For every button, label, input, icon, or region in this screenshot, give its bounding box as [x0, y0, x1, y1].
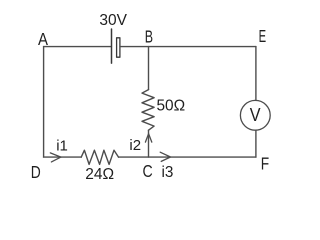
svg-text:24Ω: 24Ω — [85, 166, 114, 183]
svg-text:V: V — [250, 105, 261, 125]
svg-text:i3: i3 — [162, 164, 174, 181]
wire from node B junction down to 50 ohm resistor — [148, 47, 150, 90]
svg-text:E: E — [259, 26, 267, 46]
wire left side: A corner down to D corner — [43, 47, 45, 158]
wire 50 ohm resistor down to node C junction — [148, 130, 150, 157]
wire top-left: node A corner to battery left plate — [44, 46, 111, 48]
voltmeter U1 circle — [240, 100, 270, 130]
battery V1 30V: long plate (left) — [111, 29, 113, 63]
resistor 50 ohm (vertical zigzag) — [142, 90, 154, 131]
current arrow i3 (pointing right on bottom wire after C) — [160, 152, 170, 161]
resistor 24 ohm (horizontal zigzag) — [81, 150, 118, 164]
wire bottom-left: D corner to 24 ohm resistor — [44, 156, 82, 158]
svg-text:D: D — [31, 162, 41, 182]
current arrow i1 (pointing right on bottom-left wire) — [50, 153, 61, 162]
svg-text:30V: 30V — [99, 12, 127, 29]
current arrow i2 (pointing up below 50 ohm) — [145, 134, 151, 142]
wire right side: E corner down to voltmeter — [255, 47, 257, 101]
svg-text:B: B — [145, 27, 153, 47]
wire top-right: battery to node B junction to node E corner — [120, 46, 256, 48]
wire voltmeter down to F corner — [255, 130, 257, 157]
wire bottom: 24 ohm resistor through node C to F corner — [119, 156, 256, 158]
svg-text:50Ω: 50Ω — [157, 98, 186, 115]
svg-text:C: C — [143, 161, 153, 181]
svg-text:A: A — [38, 29, 48, 49]
svg-text:i1: i1 — [56, 138, 68, 155]
battery V1 30V: short thick plate (right) — [117, 38, 120, 57]
svg-text:F: F — [261, 153, 269, 173]
svg-text:i2: i2 — [129, 137, 141, 154]
